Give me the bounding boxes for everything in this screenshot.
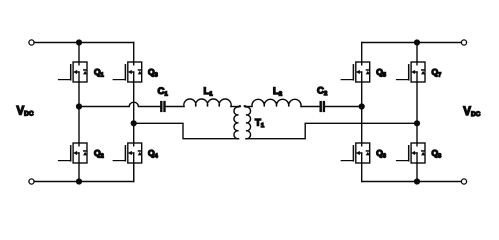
terminal top-left [29, 40, 34, 45]
wire C2 to right bridge [325, 106, 362, 108]
wire leg A drain Q1 [78, 43, 80, 63]
transformer T1 secondary dot [244, 105, 246, 107]
transistor Q2 [59, 143, 88, 163]
capacitor C2 [320, 101, 322, 112]
node leg B mid junction [131, 120, 137, 126]
transistor Q4 [113, 143, 142, 163]
node leg1 mid junction [359, 103, 365, 109]
wire top rail left [34, 42, 134, 44]
wire leg1 top [361, 43, 363, 63]
svg-text:L2: L2 [273, 86, 282, 98]
transistor Q1 [59, 62, 88, 82]
terminal bottom-right [461, 179, 466, 184]
wire C1 to L1 [166, 106, 185, 108]
wire leg1 mid [361, 82, 363, 143]
transformer T1 secondary [246, 107, 251, 139]
transistor Q7 [397, 62, 426, 82]
transistor Q8 [397, 143, 426, 163]
wire leg A source Q2 [78, 163, 80, 182]
svg-text:C1: C1 [158, 86, 169, 98]
svg-text:VDC: VDC [17, 106, 34, 118]
wire leg B upper [133, 61, 135, 63]
svg-text:Q3: Q3 [148, 67, 158, 79]
node leg A mid junction [76, 103, 82, 109]
terminal bottom-left [29, 179, 34, 184]
wire leg A mid [78, 82, 80, 143]
wire leg B mid [133, 82, 135, 143]
transistor Q3 [113, 62, 142, 82]
inductor L1 [184, 99, 231, 106]
wire top rail right [362, 42, 462, 44]
transformer T1 primary dot [239, 105, 241, 107]
wire bottom rail left [34, 181, 134, 183]
wire primary link lower [134, 123, 239, 138]
wire secondary link lower [246, 123, 417, 138]
node leg2 mid junction [414, 120, 420, 126]
wire L2 to C2 [301, 106, 320, 108]
svg-text:L1: L1 [204, 86, 214, 98]
wire leg2 top [416, 43, 418, 63]
svg-text:T1: T1 [255, 118, 265, 130]
svg-text:Q5: Q5 [376, 67, 386, 79]
wire L1 to transformer [231, 106, 239, 108]
wire secondary top [246, 106, 252, 108]
svg-text:Q7: Q7 [432, 67, 442, 79]
wire leg2 mid [416, 82, 418, 143]
node leg A top junction [76, 39, 82, 45]
transistor Q6 [341, 143, 370, 163]
node leg2 top junction [414, 39, 420, 45]
wire leg B top [133, 43, 135, 63]
svg-text:Q6: Q6 [376, 148, 386, 160]
transformer T1 primary [234, 107, 239, 139]
svg-text:Q1: Q1 [94, 67, 104, 79]
wire leg B bottom [133, 163, 135, 182]
svg-text:VDC: VDC [463, 106, 480, 118]
wire bottom rail right [362, 181, 462, 183]
wire leg B source Q4 [133, 163, 135, 182]
node leg A bottom junction [76, 178, 82, 184]
capacitor C1 [160, 101, 162, 112]
svg-text:Q8: Q8 [432, 148, 442, 160]
terminal top-right [461, 40, 466, 45]
inductor L2 [252, 99, 301, 106]
node leg2 bottom junction [414, 178, 420, 184]
transistor Q5 [341, 62, 370, 82]
svg-text:C2: C2 [317, 86, 327, 98]
svg-text:Q4: Q4 [148, 148, 159, 160]
wire primary link upper with hop [79, 102, 160, 106]
wire leg2 source Q8 [416, 163, 418, 182]
wire leg1 source Q6 [361, 163, 363, 182]
svg-text:Q2: Q2 [94, 148, 104, 160]
